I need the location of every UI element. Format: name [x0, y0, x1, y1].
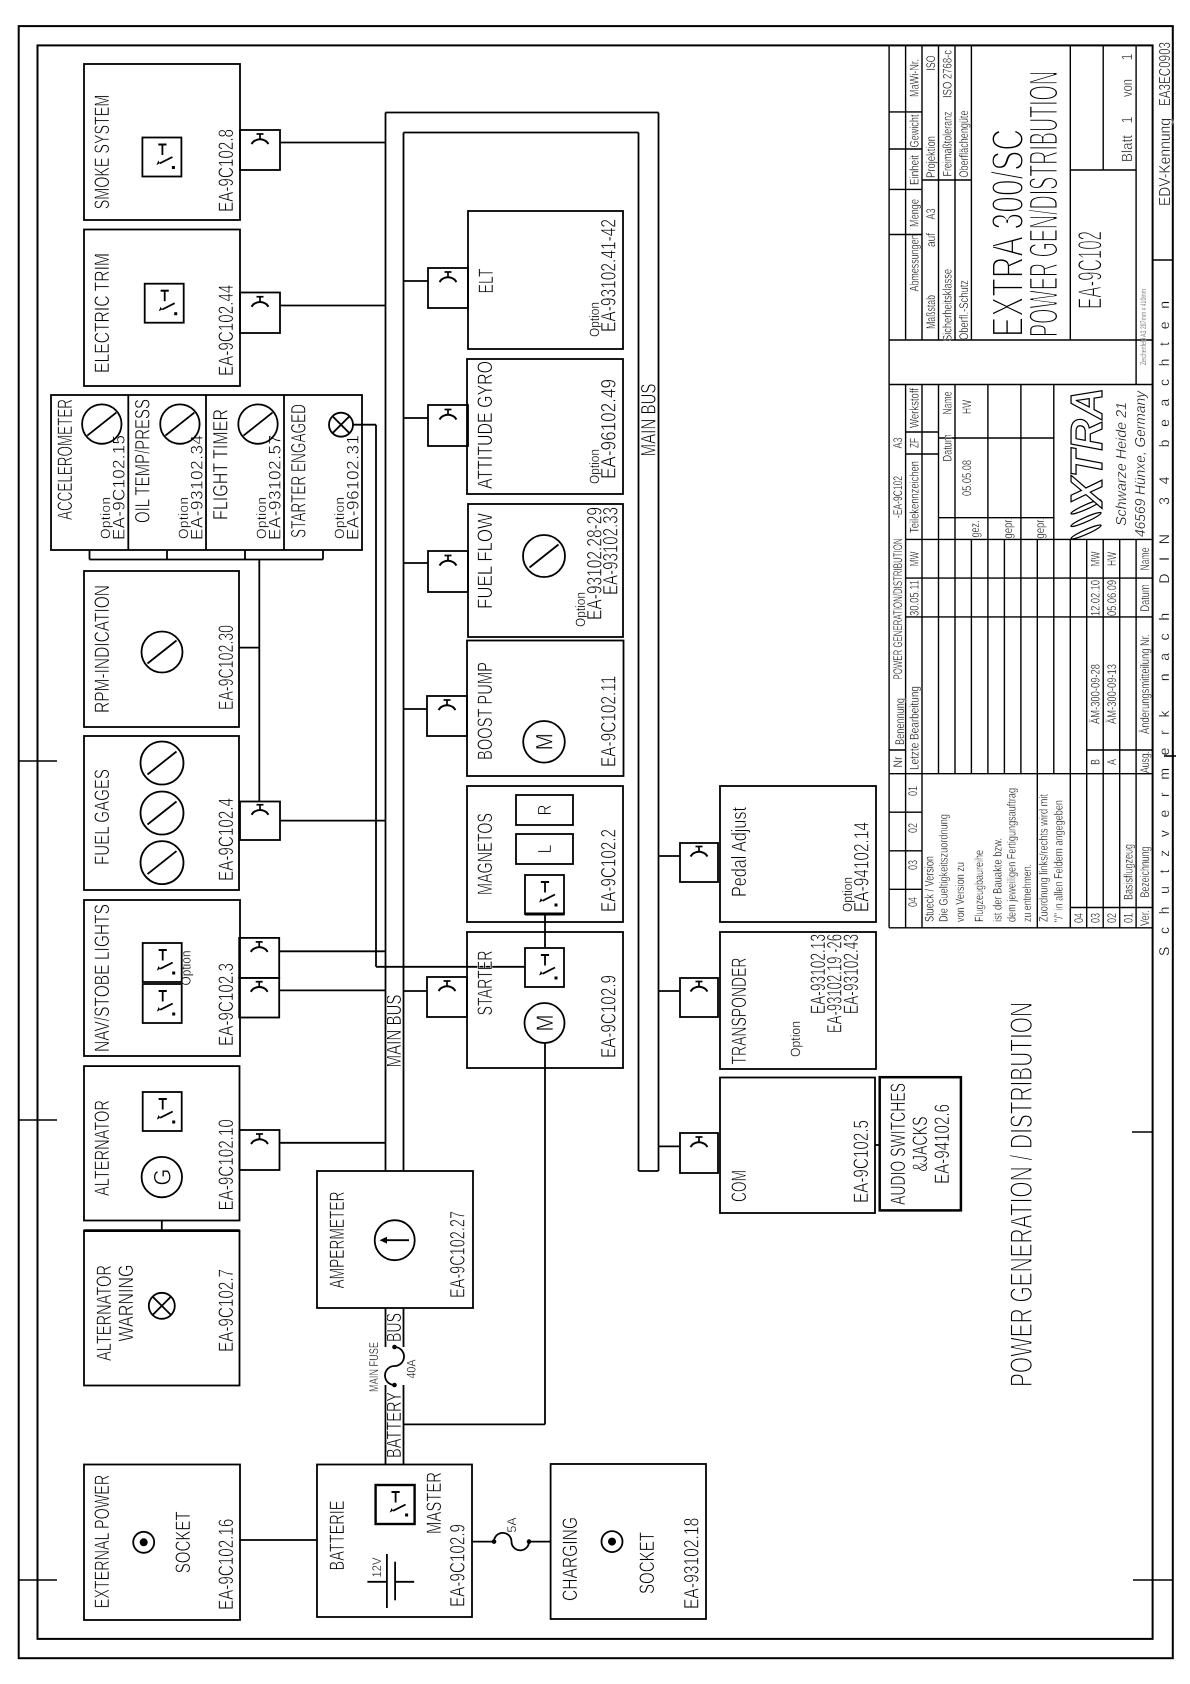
- svg-text:M: M: [532, 733, 559, 750]
- svg-text:Menge: Menge: [908, 199, 922, 227]
- svg-text:Flugzeugbaureihe: Flugzeugbaureihe: [972, 850, 986, 922]
- bottom revision rows: [1072, 547, 1152, 926]
- gauge rpm gauge: [142, 632, 183, 673]
- battery symbol 12V: [367, 1554, 414, 1608]
- svg-text:OIL TEMP/PRESS: OIL TEMP/PRESS: [132, 399, 155, 523]
- svg-text:M: M: [532, 1015, 559, 1032]
- circuit breaker smoke system: [240, 130, 280, 170]
- svg-text:Letzte Bearbeitung: Letzte Bearbeitung: [908, 686, 922, 770]
- svg-text:EA-9C102: EA-9C102: [1072, 231, 1110, 309]
- wire electric trim breaker to main bus: [280, 305, 386, 307]
- svg-text:Oberfl.-Schutz: Oberfl.-Schutz: [957, 280, 971, 340]
- svg-text:MAIN BUS: MAIN BUS: [383, 995, 406, 1068]
- toggle switch nav lights switch 2: [143, 984, 182, 1023]
- svg-text:Maßstab: Maßstab: [924, 295, 938, 329]
- svg-text:CHARGING: CHARGING: [559, 1517, 582, 1601]
- wire starter engaged lamp to starter switch: [353, 424, 376, 426]
- svg-text:FUEL FLOW: FUEL FLOW: [474, 513, 497, 609]
- svg-text:Projektion: Projektion: [924, 136, 938, 178]
- svg-text:FUEL GAGES: FUEL GAGES: [91, 769, 114, 865]
- circuit breaker com: [680, 1133, 718, 1173]
- circuit breaker attitude gyro: [428, 405, 468, 446]
- svg-text:TRANSPONDER: TRANSPONDER: [728, 958, 751, 1065]
- svg-text:COM: COM: [728, 1170, 751, 1202]
- svg-text:EA-9C102.27: EA-9C102.27: [447, 1211, 470, 1298]
- wire boost pump breaker to bus: [404, 708, 428, 710]
- svg-text:Blatt: Blatt: [1119, 134, 1136, 162]
- svg-text:Zeichenfeld A3 287mm x 410: Zeichenfeld A3 287mm x 410mm: [1139, 289, 1148, 365]
- svg-text:ISO 2768-c: ISO 2768-c: [941, 50, 955, 98]
- svg-text:L: L: [535, 845, 556, 854]
- wire nav/strobe breaker 2 to main bus: [279, 989, 385, 991]
- svg-text:01: 01: [1122, 913, 1136, 923]
- svg-text:Die Gueltigkeitszuordnung: Die Gueltigkeitszuordnung: [937, 814, 951, 922]
- svg-text:04: 04: [1072, 913, 1086, 923]
- box EXTERNAL POWER SOCKET EA-9C102.16: [84, 1465, 240, 1621]
- svg-text:EA3EC0903: EA3EC0903: [1157, 42, 1174, 106]
- svg-text:POWER GENERATION/DISTRIBUTION: POWER GENERATION/DISTRIBUTION: [891, 539, 905, 680]
- svg-text:EA-96102.31: EA-96102.31: [344, 435, 363, 540]
- svg-text:SMOKE SYSTEM: SMOKE SYSTEM: [91, 95, 114, 210]
- wire attitude gyro breaker to bus: [404, 417, 429, 419]
- svg-text:EA-9C102.4: EA-9C102.4: [215, 798, 238, 881]
- svg-text:Stueck / Version: Stueck / Version: [923, 856, 937, 922]
- svg-text:BUS: BUS: [383, 1313, 406, 1342]
- svg-text:30.05.11: 30.05.11: [908, 580, 922, 616]
- battery corridor lines (BATTERY segment): [385, 1385, 387, 1465]
- box BATTERIE MASTER EA-9C102.9: [317, 1465, 472, 1618]
- socket symbol external power: [133, 1532, 154, 1553]
- box RPM-INDICATION EA-9C102.30: [84, 571, 239, 727]
- svg-text:BATTERY: BATTERY: [383, 1392, 406, 1458]
- wire alternator box to alternator warning box: [161, 1221, 163, 1231]
- svg-text:Basisflugzeug: Basisflugzeug: [1122, 844, 1136, 900]
- gauge flight timer gauge: [238, 404, 277, 443]
- toggle switch smoke system switch: [142, 138, 181, 177]
- magnetos switch bold edge: [525, 913, 565, 916]
- fuse 5A: [492, 1533, 532, 1551]
- main bus upper bar: [385, 113, 387, 1172]
- circuit breaker nav/strobe 2: [239, 978, 279, 1018]
- main bus right bridge: [386, 112, 659, 114]
- svg-text:Schwarze Heide 21: Schwarze Heide 21: [1114, 402, 1130, 526]
- svg-text:Abmessungen: Abmessungen: [908, 234, 922, 291]
- svg-text:Name: Name: [941, 391, 955, 414]
- svg-text:STARTER ENGAGED: STARTER ENGAGED: [288, 404, 311, 538]
- box CHARGING SOCKET EA-93102.18: [551, 1464, 706, 1619]
- svg-text:POWER GEN/DISTRIBUTION: POWER GEN/DISTRIBUTION: [1021, 71, 1067, 337]
- svg-text:MAGNETOS: MAGNETOS: [474, 813, 497, 895]
- circuit breaker fuel gages: [240, 802, 280, 841]
- box FUEL GAGES EA-9C102.4: [84, 736, 239, 890]
- indicator lamp starter engaged lamp: [329, 413, 353, 437]
- svg-text:02: 02: [1105, 913, 1119, 923]
- svg-text:EA-9C102.3: EA-9C102.3: [215, 963, 238, 1046]
- box ALTERNATOR EA-9C102.10: [84, 1066, 240, 1220]
- svg-text:EA-9C102.30: EA-9C102.30: [215, 625, 238, 710]
- box ELT EA-93102.41-42: [468, 211, 623, 349]
- svg-text:HW: HW: [1105, 552, 1119, 566]
- circuit breaker ELT: [428, 268, 468, 308]
- svg-text:MASTER: MASTER: [423, 1472, 446, 1534]
- svg-text:STARTER: STARTER: [474, 951, 497, 1016]
- svg-text:G: G: [149, 1169, 176, 1186]
- toggle switch alternator switch: [143, 1092, 182, 1131]
- generator symbol G: [142, 1157, 182, 1197]
- gauge fuel gage 3: [141, 742, 184, 785]
- svg-text:auf: auf: [924, 233, 938, 247]
- svg-text:ZF: ZF: [908, 438, 922, 448]
- wire options cluster comb vertical: [90, 559, 324, 561]
- wire cluster feed to fuel gages breaker: [258, 560, 260, 802]
- gauge oil temp/press gauge: [160, 404, 199, 443]
- svg-text:Teilekennzeichen: Teilekennzeichen: [908, 461, 922, 533]
- title block outline and grid: [889, 45, 1153, 927]
- svg-text:EA-9C102.16: EA-9C102.16: [215, 1519, 238, 1610]
- svg-text:gez.: gez.: [968, 521, 982, 538]
- fold marks bottom edge: [1133, 1579, 1173, 1581]
- circuit breaker pedal adjust: [680, 843, 718, 882]
- svg-text:EA-9C102.2: EA-9C102.2: [598, 829, 621, 912]
- svg-text:Bezeichnung: Bezeichnung: [1138, 846, 1152, 897]
- box FUEL FLOW EA-93102.28-29 EA-93102.33: [468, 504, 623, 637]
- wire smoke system breaker to main bus: [280, 142, 386, 144]
- svg-text:Änderungsmitteilung Nr.: Änderungsmitteilung Nr.: [1138, 634, 1152, 734]
- circuit breaker nav/strobe 1: [239, 938, 279, 978]
- gauge fuel gage 2: [141, 792, 184, 835]
- box AUDIO SWITCHES & JACKS EA-94102.6: [880, 1077, 961, 1210]
- svg-text:EDV-Kennung: EDV-Kennung: [1157, 118, 1174, 206]
- svg-text:SOCKET: SOCKET: [636, 1532, 659, 1594]
- svg-text:Option: Option: [788, 1021, 803, 1057]
- svg-text:dem jeweiligen Fertigungsauftr: dem jeweiligen Fertigungsauftrag: [1005, 788, 1019, 922]
- Blatt 1 von 1: [1119, 54, 1136, 163]
- svg-text:ISO: ISO: [924, 55, 938, 70]
- svg-text:MW: MW: [908, 551, 922, 566]
- svg-text:R: R: [535, 805, 556, 816]
- svg-text:Pedal Adjust: Pedal Adjust: [728, 807, 751, 897]
- svg-text:ATTITUDE GYRO: ATTITUDE GYRO: [474, 361, 497, 489]
- wire battery to charging socket with 5A fuse: [472, 1541, 494, 1543]
- svg-text:EA-9C102.10: EA-9C102.10: [215, 1119, 238, 1210]
- magneto L box: [516, 834, 573, 864]
- wire pedal adjust breaker to lower bus: [659, 855, 681, 857]
- svg-text:EA-9C102.15: EA-9C102.15: [110, 435, 129, 540]
- gauge fuel gage 1: [141, 841, 184, 884]
- main bus lower bar left cap: [639, 1170, 659, 1172]
- svg-text:EA-96102.49: EA-96102.49: [598, 379, 621, 479]
- svg-text:Option: Option: [179, 951, 194, 986]
- socket symbol charging socket: [602, 1531, 623, 1552]
- EXTRA logo feathers: [1070, 498, 1102, 541]
- circuit breaker starter: [427, 977, 467, 1017]
- svg-text:EA-9C102.9: EA-9C102.9: [598, 975, 621, 1058]
- svg-text:SOCKET: SOCKET: [172, 1511, 195, 1573]
- circuit breaker transponder: [680, 978, 718, 1017]
- cell ACCELEROMETER EA-9C102.15: [54, 399, 129, 540]
- box options cluster (accelerometer / oil temp / flight timer / starter engaged): [51, 395, 362, 550]
- box ALTERNATOR WARNING EA-9C102.7: [84, 1231, 240, 1386]
- starter motor M: [525, 1003, 565, 1043]
- wire rpm indication drop: [239, 647, 259, 649]
- svg-text:Datum: Datum: [1138, 585, 1152, 612]
- gauge accelerometer gauge: [82, 404, 121, 443]
- box STARTER EA-9C102.9: [467, 932, 623, 1068]
- svg-text:Werkstoff: Werkstoff: [908, 388, 922, 428]
- svg-text:Einheit: Einheit: [908, 155, 922, 185]
- box SMOKE SYSTEM EA-9C102.8: [84, 64, 240, 220]
- svg-text:1: 1: [1119, 54, 1136, 61]
- circuit breaker fuel flow: [428, 551, 468, 592]
- svg-text:EA-93102.34: EA-93102.34: [188, 435, 207, 540]
- comb stub flight timer: [244, 550, 246, 560]
- svg-text:01: 01: [906, 786, 920, 796]
- svg-text:EA-9C102.11: EA-9C102.11: [598, 676, 621, 767]
- svg-text:MW: MW: [1089, 551, 1103, 566]
- svg-text:AMPERMETER: AMPERMETER: [326, 1192, 349, 1289]
- svg-text:EXTERNAL POWER: EXTERNAL POWER: [91, 1475, 114, 1609]
- comb stub accelerometer: [89, 550, 91, 560]
- svg-text:A3: A3: [924, 208, 938, 219]
- svg-text:ist der Bauakte bzw.: ist der Bauakte bzw.: [991, 838, 1005, 922]
- svg-text:EA-93102.41-42: EA-93102.41-42: [598, 219, 621, 332]
- svg-text:Nr: Nr: [891, 757, 905, 768]
- svg-text:"/" in allen Feldern angegeben: "/" in allen Feldern angegeben: [1052, 800, 1066, 922]
- svg-text:gepr.: gepr.: [1001, 518, 1015, 539]
- toggle switch electric trim switch: [145, 284, 184, 323]
- circuit breaker boost pump: [427, 696, 467, 736]
- indicator lamp alternator warning lamp: [149, 1293, 175, 1319]
- box MAGNETOS EA-9C102.2: [467, 786, 623, 922]
- svg-text:FLIGHT TIMER: FLIGHT TIMER: [210, 409, 233, 520]
- svg-text:ÄM-300-09-13: ÄM-300-09-13: [1105, 664, 1119, 724]
- svg-text:Name: Name: [1138, 547, 1152, 570]
- svg-text:NAV/STOBE LIGHTS: NAV/STOBE LIGHTS: [91, 904, 114, 1052]
- wire starter breaker to bus: [404, 990, 428, 992]
- wire fuel gages breaker to main bus: [280, 820, 386, 822]
- svg-text:03: 03: [906, 860, 920, 870]
- svg-text:&JACKS: &JACKS: [909, 1117, 932, 1172]
- svg-text:ELT: ELT: [475, 268, 498, 293]
- comb stub starter engaged: [322, 550, 324, 560]
- svg-text:von Version zu: von Version zu: [953, 862, 967, 922]
- magneto R box: [516, 795, 573, 825]
- wire magnetos switch to starter switch: [544, 914, 546, 947]
- svg-text:Ausg.: Ausg.: [1138, 751, 1152, 773]
- svg-text:Oberflächengüte: Oberflächengüte: [957, 110, 971, 177]
- svg-text:RPM-INDICATION: RPM-INDICATION: [91, 585, 114, 713]
- wire alternator breaker to main bus: [280, 1142, 386, 1144]
- svg-text:EA-94102.14: EA-94102.14: [851, 822, 874, 912]
- svg-text:EA-9C102.44: EA-9C102.44: [215, 284, 238, 376]
- svg-text:Zuordnung links/rechts wird mi: Zuordnung links/rechts wird mit: [1037, 793, 1051, 922]
- svg-text:MAIN FUSE: MAIN FUSE: [367, 1342, 381, 1392]
- svg-text:Benennung: Benennung: [893, 698, 907, 745]
- fold marks top edge: [19, 1579, 57, 1581]
- gauge fuel flow gauge: [523, 535, 565, 577]
- wire transponder breaker to lower bus: [659, 990, 681, 992]
- svg-text:A3: A3: [891, 437, 905, 448]
- svg-text:12V: 12V: [370, 1557, 384, 1578]
- circuit breaker alternator: [240, 1130, 280, 1170]
- svg-text:EA-93102.18: EA-93102.18: [681, 1518, 704, 1609]
- box BOOST PUMP EA-9C102.11: [467, 641, 624, 777]
- toggle switch nav lights switch 1: [143, 943, 182, 982]
- wire elt breaker to bus: [404, 280, 429, 282]
- svg-text:A: A: [1105, 759, 1119, 765]
- svg-text:XTRA: XTRA: [1061, 388, 1112, 510]
- svg-text:ALTERNATOR: ALTERNATOR: [93, 1265, 116, 1361]
- wire com box to audio switches box: [875, 1144, 880, 1146]
- svg-text:EA-9C102.7: EA-9C102.7: [215, 1269, 238, 1352]
- comb stub oil temp/press: [166, 550, 168, 560]
- svg-text:04: 04: [906, 897, 920, 907]
- svg-text:Ver.: Ver.: [1138, 910, 1152, 926]
- svg-text:ALTERNATOR: ALTERNATOR: [91, 1100, 114, 1196]
- svg-text:EA-93102.43: EA-93102.43: [840, 934, 863, 1014]
- svg-text:EA-93102.57: EA-93102.57: [266, 435, 285, 540]
- svg-text:EA-9C102.9: EA-9C102.9: [447, 1524, 470, 1607]
- box ELECTRIC TRIM EA-9C102.44: [84, 230, 240, 387]
- svg-text:5A: 5A: [505, 1517, 519, 1533]
- circuit breaker electric trim: [240, 293, 280, 334]
- bus corridor lines (BUS segment): [385, 1308, 387, 1347]
- box COM EA-9C102.5: [720, 1078, 875, 1214]
- svg-text:BOOST PUMP: BOOST PUMP: [474, 662, 497, 760]
- svg-text:05.05.08: 05.05.08: [960, 460, 974, 496]
- svg-text:POWER GENERATION / DISTRIBU: POWER GENERATION / DISTRIBUTION: [1003, 1002, 1039, 1387]
- box NAV/STOBE LIGHTS EA-9C102.3: [84, 900, 240, 1056]
- ampermeter gauge symbol: [375, 1220, 415, 1260]
- svg-text:MAIN BUS: MAIN BUS: [638, 384, 661, 457]
- svg-text:MaWi-Nr.: MaWi-Nr.: [908, 59, 922, 97]
- svg-text:Freimaßtoleranz: Freimaßtoleranz: [941, 112, 955, 177]
- svg-text:EA-9C102.8: EA-9C102.8: [215, 129, 238, 212]
- svg-text:ÄM-300-09-28: ÄM-300-09-28: [1089, 664, 1103, 724]
- main bus lower bar: [638, 133, 640, 1172]
- boost pump motor M: [523, 721, 565, 763]
- svg-text:WARNING: WARNING: [115, 1265, 138, 1342]
- title block texts: [891, 50, 1047, 907]
- cell FLIGHT TIMER EA-93102.57: [210, 409, 285, 540]
- svg-text:Sicherheitsklasse: Sicherheitsklasse: [941, 269, 955, 341]
- svg-text:EA-9C102.5: EA-9C102.5: [850, 1120, 873, 1203]
- toggle switch magnetos switch: [525, 875, 564, 914]
- svg-text:Gewicht: Gewicht: [908, 114, 922, 147]
- revision text block: [923, 788, 1066, 922]
- wire starter motor cable to battery corridor: [404, 1423, 546, 1425]
- svg-text:EA-94102.6: EA-94102.6: [931, 1104, 954, 1184]
- svg-text:-EA-9C102: -EA-9C102: [891, 476, 905, 518]
- box ATTITUDE GYRO EA-96102.49: [467, 359, 623, 494]
- svg-text:AUDIO SWITCHES: AUDIO SWITCHES: [887, 1083, 910, 1205]
- box TRANSPONDER EA-93102.13 EA-93102.19-26 EA-93102.43: [720, 932, 876, 1069]
- svg-text:1: 1: [1119, 117, 1136, 124]
- wire external power to battery box: [240, 1539, 317, 1541]
- svg-text:12.02.10: 12.02.10: [1089, 580, 1103, 616]
- wire nav/strobe breaker 1 to main bus: [279, 950, 385, 952]
- svg-text:05.06.09: 05.06.09: [1105, 580, 1119, 616]
- svg-text:gepr.: gepr.: [1033, 518, 1047, 539]
- svg-text:ACCELEROMETER: ACCELEROMETER: [54, 399, 77, 520]
- EDV-Kennung strip divider in margin: [1153, 259, 1173, 261]
- svg-text:03: 03: [1089, 913, 1103, 923]
- svg-text:HW: HW: [960, 400, 974, 414]
- svg-text:ELECTRIC TRIM: ELECTRIC TRIM: [91, 253, 114, 373]
- svg-text:46569 Hünxe, Germany: 46569 Hünxe, Germany: [1133, 390, 1149, 537]
- wire fuel flow breaker to bus: [404, 562, 429, 564]
- svg-text:EA-93102.33: EA-93102.33: [600, 507, 623, 595]
- svg-text:02: 02: [906, 823, 920, 833]
- svg-text:B: B: [1089, 759, 1103, 765]
- toggle switch starter switch: [525, 948, 564, 987]
- fuse MAIN FUSE 40A: [385, 1345, 404, 1388]
- svg-text:Datum: Datum: [941, 435, 955, 462]
- box AMPERMETER EA-9C102.27: [317, 1171, 473, 1308]
- svg-text:zu entnehmen.: zu entnehmen.: [1020, 864, 1034, 922]
- wire com breaker to lower bus: [659, 1145, 681, 1147]
- cell OIL TEMP/PRESS EA-93102.34: [132, 399, 207, 540]
- svg-text:von: von: [1119, 79, 1136, 97]
- svg-text:40A: 40A: [405, 1359, 419, 1379]
- box Pedal Adjust EA-94102.14: [720, 786, 876, 922]
- svg-text:BATTERIE: BATTERIE: [326, 1501, 349, 1571]
- cell STARTER ENGAGED EA-96102.31: [288, 404, 363, 540]
- toggle switch master switch: [376, 1485, 415, 1524]
